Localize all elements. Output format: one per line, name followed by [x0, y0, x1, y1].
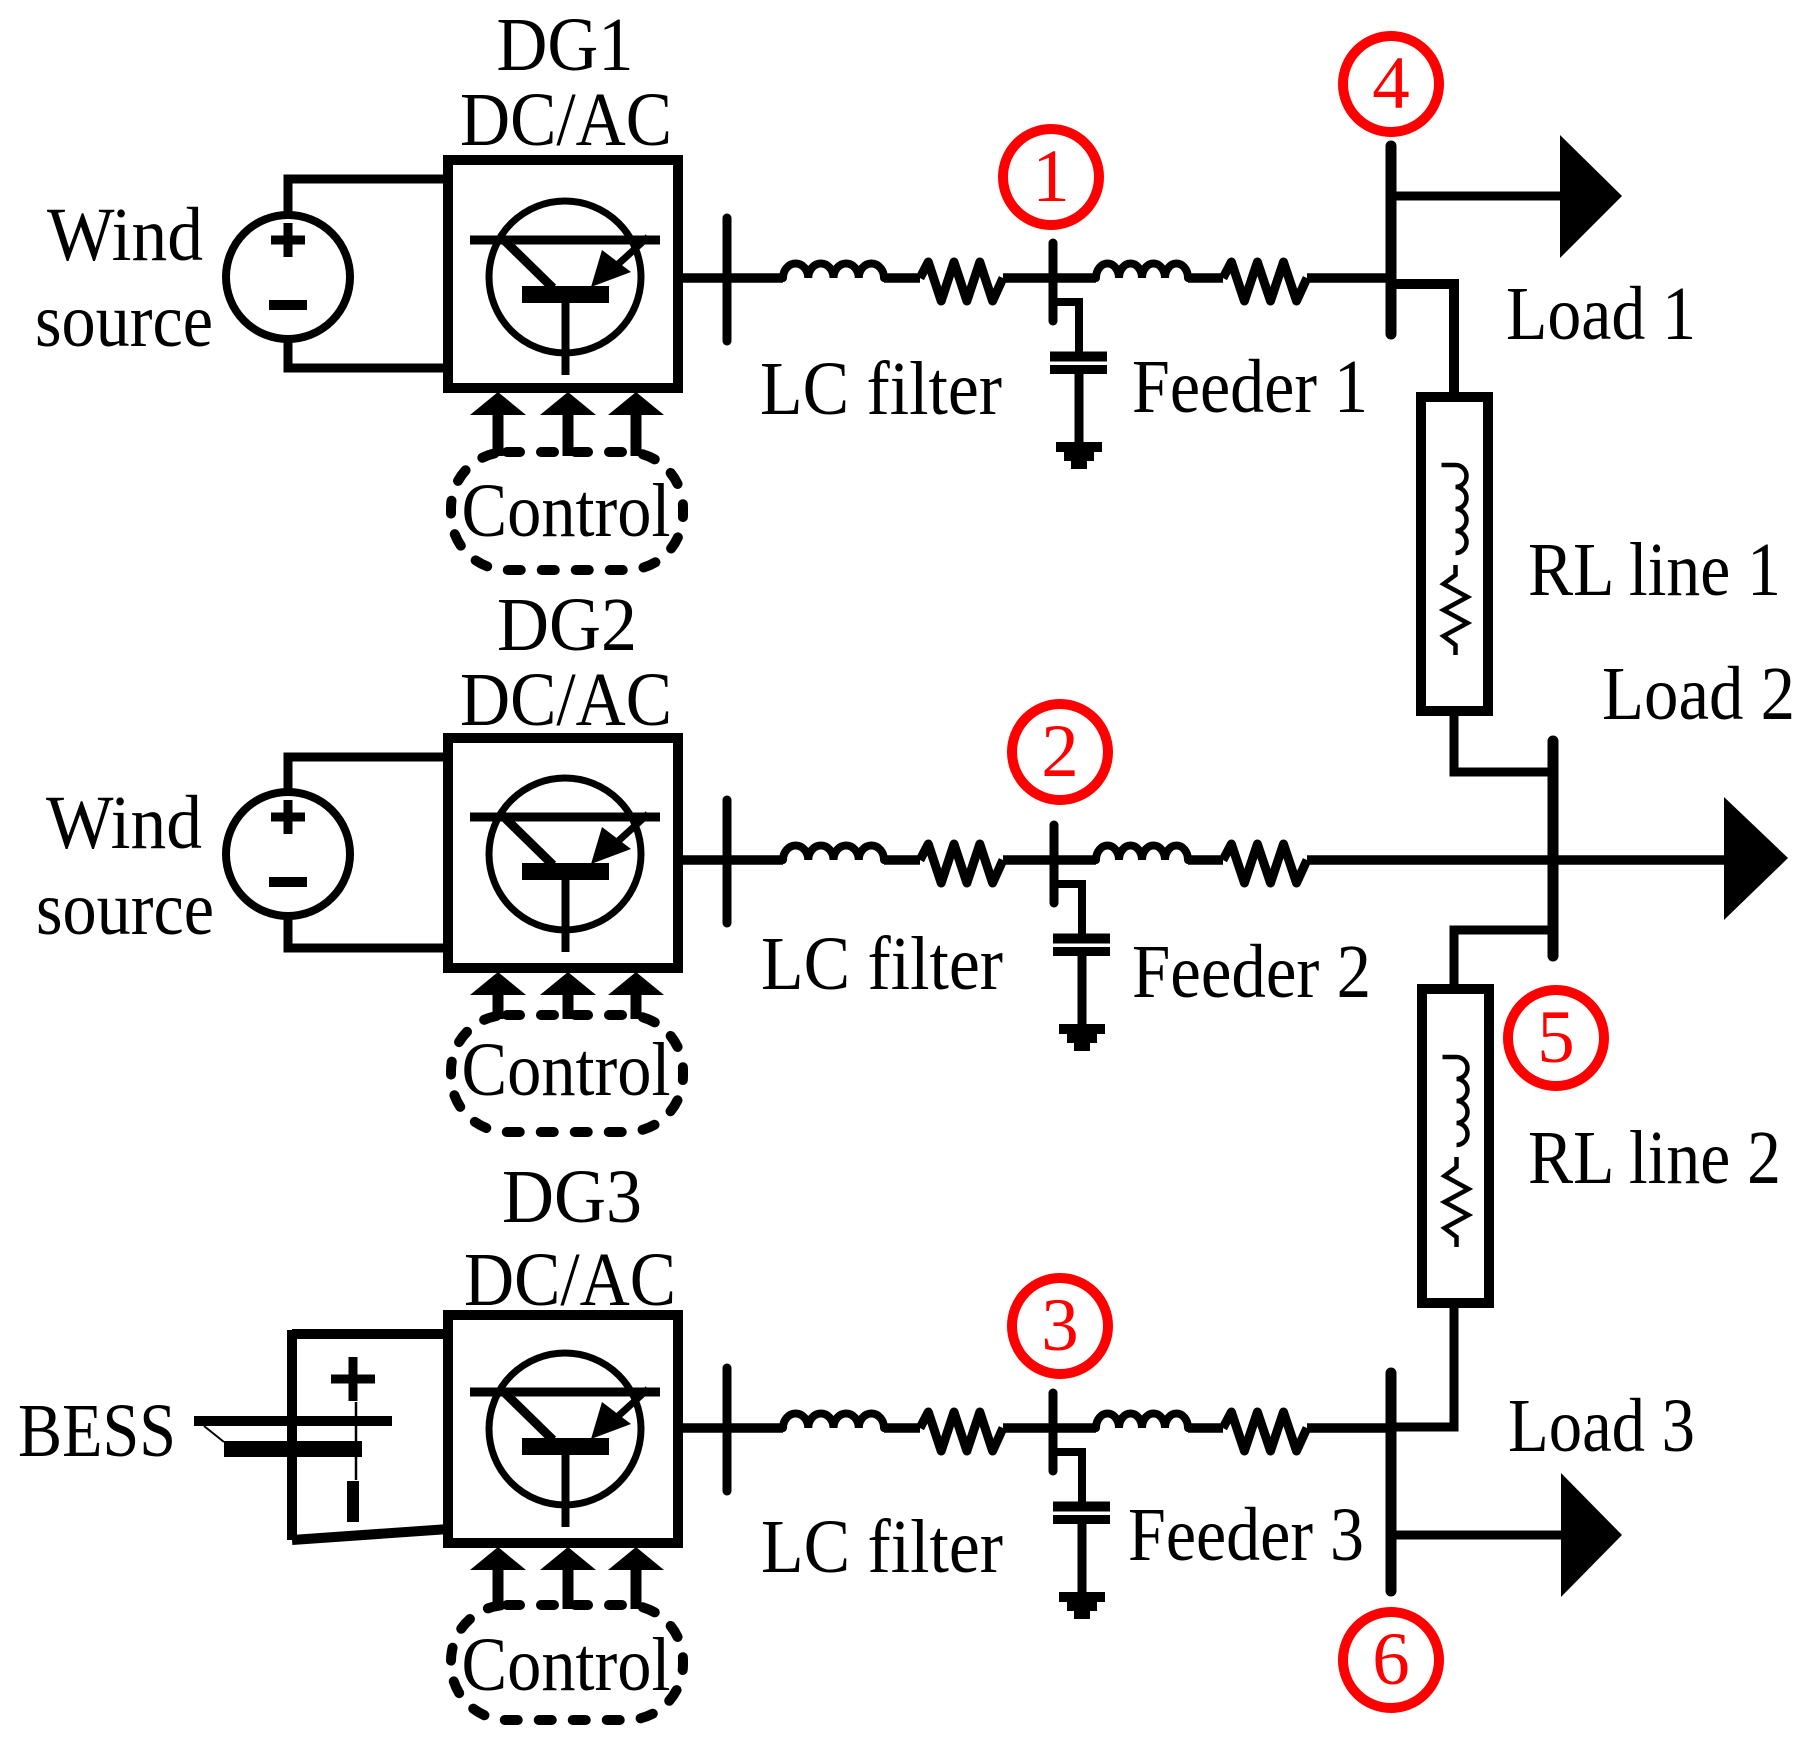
- load 1 wire: [1391, 192, 1565, 201]
- control block dashed bubble DG1: [451, 452, 683, 570]
- LC filter inductor L1: [783, 263, 884, 278]
- wire source bottom rail: [288, 916, 448, 948]
- wire L3 to R3: [884, 1423, 920, 1433]
- filter capacitor C3 plate 2: [1053, 1515, 1110, 1524]
- svg-text:DG1: DG1: [497, 3, 634, 87]
- battery short plate: [224, 1441, 362, 1457]
- svg-text:1: 1: [1032, 135, 1070, 218]
- LC filter inductor L2: [783, 845, 884, 860]
- control arrow 1 DG2: [470, 972, 526, 995]
- svg-text:RL line 2: RL line 2: [1528, 1116, 1781, 1200]
- transistor arrow line DG3: [615, 1389, 648, 1419]
- ground symbol row 3: [1059, 1592, 1105, 1602]
- svg-text:RL line 1: RL line 1: [1528, 528, 1781, 612]
- transistor base bar DG2: [522, 863, 609, 880]
- control arrow 2 DG2: [540, 972, 596, 995]
- feeder 3 inductor: [1096, 1414, 1188, 1429]
- node 5 red circle: [1508, 990, 1604, 1086]
- svg-text:LC filter: LC filter: [760, 347, 1002, 431]
- transistor emitter line DG2: [562, 879, 570, 952]
- wire node 2 cap jog: [1054, 884, 1082, 934]
- filter capacitor C1 plate 1: [1050, 352, 1107, 362]
- load 1 arrow: [1560, 135, 1622, 258]
- wire L2 to R2: [884, 855, 920, 865]
- svg-text:Control: Control: [462, 1623, 671, 1707]
- wire converter output row 3: [678, 1423, 783, 1433]
- transistor circle DG1: [489, 201, 641, 353]
- wire feeder 3 to bus: [1307, 1423, 1391, 1433]
- LC filter resistor R3: [920, 1412, 1003, 1451]
- transistor base bar DG3: [522, 1438, 609, 1455]
- bus bar node 6: [1386, 1373, 1397, 1591]
- wire converter output row 1: [678, 273, 783, 283]
- wire node 1 cap jog: [1053, 302, 1079, 352]
- transistor arrowhead DG2: [591, 827, 631, 864]
- transistor arrow line DG2: [615, 814, 648, 844]
- LC filter resistor R2: [920, 844, 1003, 883]
- filter capacitor C3 plate 1: [1053, 1502, 1110, 1512]
- wire feeder inductor to resistor row 3: [1188, 1423, 1223, 1433]
- wire feeder 2 to bus: [1307, 855, 1726, 865]
- node 2 red circle: [1012, 704, 1108, 800]
- wire feeder inductor to resistor row 2: [1188, 855, 1223, 865]
- control arrow 1 DG3: [470, 1547, 526, 1570]
- svg-text:DC/AC: DC/AC: [464, 1238, 676, 1322]
- svg-text:DC/AC: DC/AC: [460, 78, 672, 162]
- wind source circle DG2: [226, 792, 350, 916]
- transistor collector line DG1: [470, 236, 660, 245]
- svg-text:Load 3: Load 3: [1508, 1384, 1695, 1468]
- transistor circle DG2: [489, 778, 641, 930]
- wire feeder 1 to bus: [1307, 273, 1391, 283]
- transistor arrow line DG1: [615, 237, 648, 267]
- wind source plus sign: [271, 236, 305, 245]
- node 3 red circle: [1012, 1278, 1108, 1374]
- ground symbol row 1: [1056, 442, 1102, 452]
- wire source bottom rail: [288, 339, 448, 368]
- RL line 2 inner inductor: [1443, 1057, 1468, 1145]
- wire R2 to node 2: [1003, 855, 1096, 865]
- feeder 2 inductor: [1096, 846, 1188, 861]
- middle bus bar (load 2): [1548, 741, 1559, 956]
- converter output terminal tick row 1: [723, 218, 732, 341]
- filter capacitor C1 plate 2: [1050, 365, 1107, 374]
- wind source minus sign: [269, 877, 307, 887]
- svg-text:Feeder 3: Feeder 3: [1128, 1493, 1364, 1577]
- RL line 1 inner inductor: [1442, 465, 1467, 553]
- svg-text:Control: Control: [462, 1028, 671, 1112]
- transistor collector line DG3: [470, 1388, 660, 1397]
- wire source top rail: [288, 757, 448, 792]
- DG3 section: [194, 1315, 683, 1720]
- DC/AC converter box DG1: [448, 160, 678, 388]
- svg-text:Wind: Wind: [46, 781, 202, 865]
- control arrow 3 DG1: [608, 392, 664, 415]
- transistor base bar DG1: [522, 286, 609, 303]
- node 4 red circle: [1343, 36, 1439, 132]
- load 2 arrow: [1724, 797, 1788, 920]
- control block dashed bubble DG2: [451, 1015, 683, 1132]
- filter capacitor C2 plate 2: [1053, 947, 1110, 956]
- wire feeder inductor to resistor row 1: [1188, 273, 1223, 283]
- transistor emitter line DG3: [562, 1454, 570, 1527]
- node 2 tick: [1050, 825, 1059, 903]
- RL line 2 inner resistor: [1445, 1157, 1469, 1247]
- control arrow 3 DG3: [608, 1547, 664, 1570]
- load 3 wire: [1391, 1531, 1565, 1540]
- BESS battery top rail wire: [292, 1329, 448, 1339]
- RL line 2 box: [1422, 989, 1489, 1303]
- transistor collector line DG2: [470, 813, 660, 822]
- wire RL line 1 to middle bus: [1454, 711, 1553, 772]
- feeder 2 resistor: [1223, 844, 1307, 883]
- svg-text:Load 2: Load 2: [1602, 652, 1795, 736]
- transistor circle DG3: [489, 1353, 641, 1505]
- bus bar node 4: [1386, 146, 1397, 334]
- wind source circle DG1: [226, 215, 350, 339]
- node 1 red circle: [1003, 129, 1099, 225]
- LC filter resistor R1: [920, 262, 1003, 301]
- svg-text:3: 3: [1041, 1284, 1079, 1367]
- svg-text:LC filter: LC filter: [761, 922, 1003, 1006]
- node 6 red circle: [1343, 1612, 1439, 1708]
- svg-text:DG3: DG3: [502, 1155, 642, 1239]
- filter capacitor C2 plate 1: [1053, 934, 1110, 944]
- transistor arrowhead DG3: [591, 1402, 631, 1439]
- svg-text:Load 1: Load 1: [1506, 272, 1696, 356]
- svg-text:BESS: BESS: [18, 1389, 176, 1473]
- control arrow 2 DG3: [540, 1547, 596, 1570]
- transistor emitter line DG1: [562, 302, 570, 375]
- RL line 1 box: [1421, 397, 1488, 711]
- control arrow 1 DG1: [470, 392, 526, 415]
- wind source plus sign: [271, 813, 305, 822]
- svg-text:source: source: [35, 279, 213, 363]
- ground symbol row 2: [1059, 1024, 1105, 1034]
- wind source minus sign: [269, 300, 307, 310]
- battery long plate: [194, 1416, 392, 1426]
- wire converter output row 2: [678, 855, 783, 865]
- transistor left diagonal DG3: [504, 1392, 553, 1440]
- svg-text:6: 6: [1372, 1618, 1410, 1701]
- svg-text:Feeder 1: Feeder 1: [1132, 345, 1368, 429]
- BESS battery bottom rail wire: [292, 1529, 449, 1540]
- battery diagonal tick: [204, 1426, 224, 1442]
- control block dashed bubble DG3: [451, 1605, 683, 1720]
- svg-text:4: 4: [1372, 42, 1410, 125]
- transistor arrowhead DG1: [591, 250, 631, 287]
- svg-text:LC filter: LC filter: [761, 1505, 1003, 1589]
- battery minus terminal bar: [347, 1481, 359, 1522]
- BESS battery left rail wire: [287, 1330, 297, 1540]
- battery thin lead: [355, 1402, 358, 1480]
- svg-text:Control: Control: [462, 469, 671, 553]
- converter output terminal tick row 3: [723, 1368, 732, 1491]
- DC/AC converter box DG2: [448, 738, 678, 968]
- wire capacitor C1 to ground: [1075, 374, 1084, 442]
- converter output terminal tick row 2: [723, 800, 732, 923]
- control arrow 3 DG2: [608, 972, 664, 995]
- svg-text:DG2: DG2: [497, 583, 637, 667]
- wire bus 4 to RL line 1: [1391, 284, 1454, 397]
- svg-text:Feeder 2: Feeder 2: [1132, 930, 1371, 1014]
- DG1 section: [226, 160, 683, 570]
- RL line 1 inner resistor: [1444, 565, 1468, 655]
- DC/AC converter box DG3: [448, 1315, 678, 1543]
- wire capacitor C3 to ground: [1078, 1524, 1087, 1592]
- wire RL line 2 to bus 6: [1391, 1303, 1454, 1427]
- svg-text:2: 2: [1041, 710, 1079, 793]
- control arrow 2 DG1: [540, 392, 596, 415]
- wire capacitor C2 to ground: [1078, 956, 1087, 1024]
- feeder 1 inductor: [1096, 264, 1188, 279]
- svg-text:Wind: Wind: [47, 193, 203, 277]
- feeder 3 resistor: [1223, 1412, 1307, 1451]
- battery plus sign: [331, 1375, 375, 1384]
- svg-text:source: source: [36, 867, 214, 951]
- transistor left diagonal DG2: [504, 817, 553, 865]
- transistor left diagonal DG1: [504, 240, 553, 288]
- wire L1 to R1: [884, 273, 920, 283]
- node 1 tick: [1049, 243, 1058, 321]
- wire R1 to node 1: [1003, 273, 1096, 283]
- svg-text:DC/AC: DC/AC: [460, 658, 672, 742]
- svg-text:5: 5: [1537, 996, 1575, 1079]
- wire middle bus to RL line 2: [1454, 930, 1553, 989]
- DG2 section: [226, 738, 683, 1132]
- load 3 arrow: [1561, 1473, 1622, 1597]
- feeder 1 resistor: [1223, 262, 1307, 301]
- wire source top rail: [288, 179, 448, 215]
- wire node 3 cap jog: [1053, 1452, 1082, 1502]
- wire R3 to node 3: [1003, 1423, 1096, 1433]
- node 3 tick: [1049, 1393, 1058, 1471]
- LC filter inductor L3: [783, 1413, 884, 1428]
